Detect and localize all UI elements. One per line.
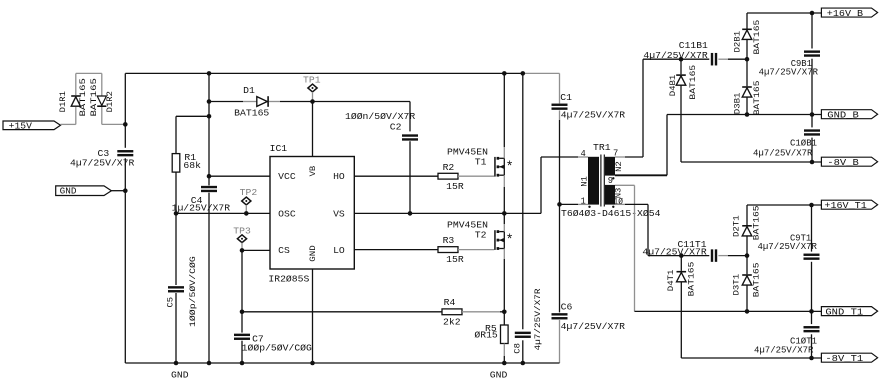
label GND right xyxy=(490,369,508,380)
svg-text:4µ7/25V/X7R: 4µ7/25V/X7R xyxy=(561,110,626,121)
wire -8V_B rail xyxy=(681,161,821,163)
wire T2 drain xyxy=(503,213,505,231)
svg-text:-8V_B: -8V_B xyxy=(827,158,859,168)
wire OSC pin xyxy=(176,212,270,214)
node C1/TR1 pin1 xyxy=(557,202,562,207)
node rail/C8 xyxy=(521,361,526,366)
wire C1 to pin1 node xyxy=(559,110,561,204)
op-amp IC1 body xyxy=(270,157,354,270)
label TP2 xyxy=(240,187,258,198)
node rail/C8 xyxy=(521,71,526,76)
svg-text:4µ7/25V/X7R: 4µ7/25V/X7R xyxy=(753,148,813,159)
capacitor C5 xyxy=(168,286,184,292)
svg-text:D1: D1 xyxy=(243,85,255,96)
wire CS branch to R4 xyxy=(242,311,442,313)
svg-text:2k2: 2k2 xyxy=(443,316,461,327)
svg-text:4: 4 xyxy=(581,148,587,159)
wire LO to R3 xyxy=(354,249,438,251)
label R3 xyxy=(443,235,455,246)
label C9T1 value xyxy=(758,241,818,252)
wire TR1 pin1 xyxy=(560,203,589,205)
wire +15V vertical bus xyxy=(124,73,126,363)
label R1 value xyxy=(183,160,201,171)
pin label 1 xyxy=(581,196,587,207)
diode D3T1 xyxy=(742,256,752,312)
pin label VS xyxy=(333,208,345,219)
node TP3/CS xyxy=(240,248,245,253)
svg-text:D3T1: D3T1 xyxy=(731,274,741,296)
transistor T2 xyxy=(494,230,513,250)
svg-text:T6Ø4Ø3-D4615-XØ54: T6Ø4Ø3-D4615-XØ54 xyxy=(561,208,661,219)
resistor R2 xyxy=(438,173,458,179)
wire +15V top rail xyxy=(125,72,523,74)
label C1 xyxy=(560,92,572,103)
label C3 value xyxy=(70,157,135,168)
label R1 xyxy=(184,152,196,163)
wire rail to C1 (thin) xyxy=(523,73,560,103)
label TR1 part number xyxy=(561,208,661,219)
output flag GND_T1 xyxy=(821,307,877,318)
svg-text:BAT165: BAT165 xyxy=(752,81,762,116)
label D4T1 xyxy=(666,270,676,292)
wire +16V_T1 rail xyxy=(747,204,821,206)
label D1R2 xyxy=(105,91,115,112)
capacitor C8 xyxy=(515,332,531,338)
svg-text:CS: CS xyxy=(278,245,290,256)
diode D4T1 xyxy=(677,256,687,358)
label T1 xyxy=(475,156,487,167)
label C2 value xyxy=(345,111,416,122)
svg-text:9: 9 xyxy=(608,175,613,186)
svg-text:4µ7/25V/X7R: 4µ7/25V/X7R xyxy=(643,50,708,61)
svg-text:N2: N2 xyxy=(614,161,624,172)
node TP2/OSC xyxy=(244,211,249,216)
wire -8V_T1 rail xyxy=(681,357,821,359)
wire C9B1 top xyxy=(811,13,813,49)
wire diode hump top xyxy=(76,72,102,74)
diode D1R1 xyxy=(71,73,80,106)
capacitor C2 xyxy=(402,134,418,140)
pin label VCC xyxy=(278,171,296,182)
svg-text:C1: C1 xyxy=(560,92,572,103)
label C10T1 xyxy=(790,336,817,347)
label TR1 xyxy=(593,142,611,153)
resistor R5 xyxy=(501,325,509,344)
svg-text:GND: GND xyxy=(60,187,77,197)
svg-text:D2T1: D2T1 xyxy=(731,215,741,237)
svg-text:+16V_B: +16V_B xyxy=(827,9,863,19)
label GND left xyxy=(171,369,189,380)
label C8 value xyxy=(533,288,543,350)
label C5 value xyxy=(188,256,198,327)
node +15V junction xyxy=(123,122,128,127)
svg-text:1ØØn/5ØV/X7R: 1ØØn/5ØV/X7R xyxy=(345,111,416,122)
svg-text:68k: 68k xyxy=(183,160,201,171)
svg-text:R2: R2 xyxy=(443,162,455,173)
label D3T1 xyxy=(731,274,741,296)
svg-text:BAT165: BAT165 xyxy=(78,78,88,116)
test point TP1 xyxy=(308,84,317,101)
wire C10B1 bottom xyxy=(811,138,813,162)
wire pin7 to C11B1 xyxy=(615,59,681,157)
svg-text:4µ7/25V/X7R: 4µ7/25V/X7R xyxy=(70,157,135,168)
wire CS pin xyxy=(242,249,270,251)
node -8V_B/C10B1 xyxy=(810,160,815,165)
label IR2085S xyxy=(268,273,309,284)
test point TP2 xyxy=(242,197,251,213)
wire GND bottom rail xyxy=(125,362,559,364)
wire R2 to T1 gate xyxy=(458,175,494,177)
winding label N2 xyxy=(614,161,624,172)
label R4 xyxy=(444,297,456,308)
transformer secondary winding N2 xyxy=(605,157,615,176)
winding label N3 xyxy=(614,188,624,199)
label C10B1 value xyxy=(753,148,813,159)
phase dot N3 xyxy=(612,206,614,208)
wire to C11B1 cap xyxy=(681,58,710,60)
svg-text:1ØØp/5ØV/CØG: 1ØØp/5ØV/CØG xyxy=(188,256,198,327)
svg-text:HO: HO xyxy=(333,171,345,182)
diode D2T1 xyxy=(742,205,752,256)
label C7 value xyxy=(242,343,312,354)
node rail/C4 xyxy=(207,361,212,366)
wire C6 to GND rail end xyxy=(559,320,561,363)
wire C10T1 top xyxy=(811,311,813,324)
diode D4B1 xyxy=(676,59,686,162)
svg-text:D4B1: D4B1 xyxy=(668,75,678,97)
diode D1 xyxy=(257,96,269,107)
winding label N1 xyxy=(580,176,590,187)
label R2 value xyxy=(446,181,464,192)
label D2T1 BAT165 xyxy=(751,205,761,240)
label C11T1 xyxy=(678,239,707,250)
svg-text:15R: 15R xyxy=(446,181,464,192)
svg-text:ØR15: ØR15 xyxy=(474,330,497,341)
label BAT165 (D1R1) xyxy=(78,78,88,116)
transformer secondary winding N3 xyxy=(605,185,615,205)
node D2B1/D3B1 xyxy=(745,57,750,62)
node R1 branch/209 xyxy=(207,114,212,119)
node -8V_T1/C10T1 xyxy=(809,356,814,361)
transistor T1 xyxy=(494,157,513,177)
resistor R1 xyxy=(172,154,180,173)
svg-text:15R: 15R xyxy=(446,254,464,265)
output flag -8V_B xyxy=(821,157,877,168)
pin label HO xyxy=(333,171,345,182)
svg-text:BAT165: BAT165 xyxy=(751,263,761,298)
svg-text:C8: C8 xyxy=(513,343,523,354)
svg-text:R3: R3 xyxy=(443,235,455,246)
wire C11T1 to D2/D3 node xyxy=(718,255,747,257)
label R3 value xyxy=(446,254,464,265)
transformer core xyxy=(601,155,604,207)
label C2 xyxy=(390,122,402,133)
capacitor C9B1 xyxy=(804,50,820,56)
node D1 line/209 xyxy=(207,99,212,104)
label C10B1 xyxy=(790,138,817,149)
pin label VB xyxy=(308,166,318,177)
label D1 xyxy=(243,85,255,96)
svg-text:LO: LO xyxy=(333,245,345,256)
svg-text:D1R1: D1R1 xyxy=(58,91,68,112)
svg-text:VB: VB xyxy=(308,166,318,177)
svg-text:4µ7/25V/X7R: 4µ7/25V/X7R xyxy=(759,66,819,77)
wire C8 drop xyxy=(522,73,524,363)
svg-text:N3: N3 xyxy=(614,188,624,199)
svg-text:IR2Ø85S: IR2Ø85S xyxy=(268,273,309,284)
svg-text:*: * xyxy=(506,160,514,175)
svg-text:BAT165: BAT165 xyxy=(234,107,269,118)
pin label CS xyxy=(278,245,290,256)
capacitor C10T1 xyxy=(804,326,820,332)
wire T2 source xyxy=(503,249,505,312)
label C5 xyxy=(165,297,175,308)
capacitor C7 xyxy=(234,334,250,340)
svg-text:C5: C5 xyxy=(165,297,175,308)
capacitor C3 xyxy=(117,150,133,156)
wire pin10 to C11T1 xyxy=(615,204,681,255)
svg-text:GND: GND xyxy=(171,369,189,380)
wire to C11T1 cap xyxy=(681,255,709,257)
node GND_T1/C9-C10 xyxy=(809,309,814,314)
svg-text:GND_T1: GND_T1 xyxy=(825,308,863,318)
label D4T1 BAT165 xyxy=(686,262,696,297)
node VS/T1-T2 xyxy=(502,211,507,216)
wire TP1 line to C2 corner xyxy=(313,102,411,132)
label C11T1 value xyxy=(642,246,707,257)
diode D2B1 xyxy=(742,13,752,59)
node rail/C5 xyxy=(174,361,179,366)
wire GND_B rail xyxy=(667,114,821,116)
label C6 value xyxy=(561,321,626,332)
wire VS up to TR1 pin4 xyxy=(541,157,588,213)
wire C9B1 bottom xyxy=(811,59,813,115)
svg-text:BAT165: BAT165 xyxy=(686,262,696,297)
pin label LO xyxy=(333,245,345,256)
pin label 4 xyxy=(581,148,587,159)
capacitor C11T1 xyxy=(711,249,717,262)
wire GND_T1 rail xyxy=(635,310,822,312)
svg-text:1µ/25V/X7R: 1µ/25V/X7R xyxy=(172,203,231,214)
output flag +16V_B xyxy=(821,8,877,19)
capacitor C9T1 xyxy=(804,254,820,260)
node GND junction xyxy=(123,188,128,193)
phase dot N1 xyxy=(588,206,590,208)
wire +16V_B rail xyxy=(747,12,821,14)
output flag +16V_T1 xyxy=(821,200,877,211)
svg-text:T2: T2 xyxy=(475,230,487,241)
wire R1 top link xyxy=(176,116,209,153)
svg-text:4µ7/25V/X7R: 4µ7/25V/X7R xyxy=(642,246,707,257)
label C3 xyxy=(98,148,110,159)
label D2B1 xyxy=(733,31,743,53)
pin label GND xyxy=(308,245,318,262)
svg-text:R4: R4 xyxy=(444,297,456,308)
label BAT165 (D1R2) xyxy=(89,78,99,116)
wire 209 branch vertical xyxy=(208,73,210,363)
svg-text:4µ7/25V/X7R: 4µ7/25V/X7R xyxy=(533,288,543,350)
label C1 value xyxy=(561,110,626,121)
wire VB pin xyxy=(312,102,314,157)
label R2 xyxy=(443,162,455,173)
label C11B1 value xyxy=(643,50,708,61)
wire R3 to T2 gate xyxy=(458,249,494,251)
svg-text:BAT165: BAT165 xyxy=(751,205,761,240)
label C4 value xyxy=(172,203,231,214)
wire R1 to OSC/C5 xyxy=(175,172,177,363)
svg-text:TP1: TP1 xyxy=(303,74,321,85)
wire GND_B to TR1 N2 bottom xyxy=(615,115,667,176)
wire GND pin xyxy=(312,269,314,363)
wire C10T1 bottom xyxy=(811,334,813,358)
wire R5 to GND rail xyxy=(503,344,505,364)
node TP1/VB junction xyxy=(310,99,315,104)
wire +15V input xyxy=(61,107,76,125)
node C11B1/D4B1 xyxy=(679,57,684,62)
wire pin1 node to C6 xyxy=(559,204,561,312)
wire N3 top to GND_T1 xyxy=(615,185,635,311)
label T1 PMV45EN xyxy=(447,146,488,157)
node rail/R5 xyxy=(502,361,507,366)
resistor R3 xyxy=(438,247,458,253)
svg-text:*: * xyxy=(506,234,514,249)
svg-text:TP2: TP2 xyxy=(240,187,258,198)
label D3B1 BAT165 xyxy=(752,81,762,116)
svg-text:OSC: OSC xyxy=(278,208,296,219)
node rail/209 xyxy=(207,71,212,76)
diode D1R2 xyxy=(97,73,106,107)
test point TP3 xyxy=(237,235,246,251)
pin label 10 xyxy=(614,196,624,207)
label T2 xyxy=(475,230,487,241)
svg-text:D2B1: D2B1 xyxy=(733,31,743,53)
capacitor C4 xyxy=(201,186,217,192)
capacitor C11B1 xyxy=(711,53,717,65)
label R4 value xyxy=(443,316,461,327)
label C8 xyxy=(513,343,523,354)
label TP1 xyxy=(303,74,321,85)
wire HO to R2 xyxy=(354,175,438,177)
wire C9T1 top xyxy=(811,205,813,252)
output flag -8V_T1 xyxy=(821,353,877,364)
svg-text:BAT165: BAT165 xyxy=(89,78,99,116)
svg-text:BAT165: BAT165 xyxy=(752,20,762,55)
svg-text:TR1: TR1 xyxy=(593,142,611,153)
svg-text:D3B1: D3B1 xyxy=(733,93,743,115)
supply flag +15V xyxy=(3,121,61,132)
label C10T1 value xyxy=(754,344,814,355)
node GND_T1/D3T1 xyxy=(745,309,750,314)
node +16V_T1/C9T1 xyxy=(809,203,814,208)
label D1 BAT165 xyxy=(234,107,269,118)
svg-text:VCC: VCC xyxy=(278,171,296,182)
label D1R1 xyxy=(58,91,68,112)
output flag GND_B xyxy=(821,110,877,121)
node rail/C7 xyxy=(240,361,245,366)
wire D1R2 to +15V node xyxy=(102,107,126,124)
capacitor C10B1 xyxy=(804,129,820,135)
capacitor C1 xyxy=(552,104,568,110)
svg-text:IC1: IC1 xyxy=(270,143,288,154)
pin label OSC xyxy=(278,208,296,219)
node GND_B/C9-C10 xyxy=(810,112,815,117)
pin label 7 xyxy=(613,148,618,159)
wire VS line xyxy=(354,212,541,214)
label D2T1 xyxy=(731,215,741,237)
node C11T1/D4T1 xyxy=(679,253,684,258)
label T2 PMV45EN xyxy=(447,220,488,231)
svg-text:N1: N1 xyxy=(580,176,590,187)
svg-text:TP3: TP3 xyxy=(233,226,251,237)
label C9B1 xyxy=(791,58,813,69)
label R5 value xyxy=(474,330,497,341)
svg-text:4µ7/25V/X7R: 4µ7/25V/X7R xyxy=(754,344,814,355)
label D3B1 xyxy=(733,93,743,115)
label TP3 xyxy=(233,226,251,237)
label C9T1 xyxy=(790,233,812,244)
svg-text:C6: C6 xyxy=(561,302,573,313)
node VCC/209 xyxy=(207,174,212,179)
svg-text:1ØØp/5ØV/CØG: 1ØØp/5ØV/CØG xyxy=(242,343,312,354)
capacitor C6 xyxy=(552,313,568,319)
wire GND to bus xyxy=(111,190,125,192)
wire T1 source xyxy=(503,175,505,213)
svg-text:+15V: +15V xyxy=(9,121,33,132)
svg-text:+16V_T1: +16V_T1 xyxy=(824,201,866,211)
label C6 xyxy=(561,302,573,313)
label C11B1 xyxy=(679,40,708,51)
wire R5 top xyxy=(503,312,505,325)
diode D3B1 xyxy=(742,59,752,114)
wire C2 to VS xyxy=(409,141,411,213)
node rail/IC-GND xyxy=(310,361,315,366)
node D2T1/D3T1 xyxy=(745,253,750,258)
label IC1 xyxy=(270,143,288,154)
svg-text:4µ7/25V/X7R: 4µ7/25V/X7R xyxy=(561,321,626,332)
node T2 source/R4/R5 xyxy=(502,310,507,315)
node +16V_B/C9B1 xyxy=(810,11,815,16)
svg-text:VS: VS xyxy=(333,208,345,219)
wire D1 anode xyxy=(209,101,257,103)
wire C11B1 to D2/D3 node xyxy=(718,58,747,60)
wire C10B1 top xyxy=(811,115,813,128)
svg-text:GND: GND xyxy=(308,245,318,262)
label C4 xyxy=(191,195,203,206)
label D4B1 xyxy=(668,75,678,97)
wire C7 to GND rail xyxy=(241,341,243,363)
wire D1 cathode to TP1 xyxy=(269,101,313,103)
label D3T1 BAT165 xyxy=(751,263,761,298)
wire T1 drain xyxy=(503,73,505,158)
label C9B1 value xyxy=(759,66,819,77)
node R4 branch xyxy=(240,310,245,315)
wire CS to C7/R4 xyxy=(241,250,243,332)
phase dot N2 xyxy=(612,177,614,179)
svg-text:GND: GND xyxy=(490,369,508,380)
label D2B1 BAT165 xyxy=(752,20,762,55)
svg-text:C2: C2 xyxy=(390,122,402,133)
wire VCC pin xyxy=(209,175,270,177)
pin label 9 xyxy=(608,175,613,186)
supply flag GND xyxy=(56,186,112,197)
node OSC/R1 xyxy=(174,211,179,216)
svg-text:D1R2: D1R2 xyxy=(105,91,115,112)
label D4B1 BAT165 xyxy=(688,65,698,100)
transformer TR1 primary winding N1 xyxy=(588,157,599,205)
node GND_B/D3B1 xyxy=(745,112,750,117)
svg-text:-8V_T1: -8V_T1 xyxy=(825,354,863,364)
label C7 xyxy=(252,333,264,344)
